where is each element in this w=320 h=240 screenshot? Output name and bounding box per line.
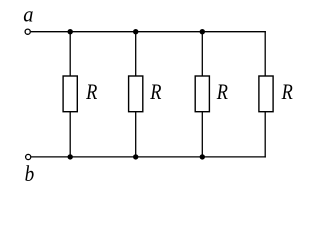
wire: branch 2 top lead <box>135 32 137 77</box>
junction dot: branch 1 bottom <box>68 154 73 159</box>
junction dot: branch 3 bottom <box>200 154 205 159</box>
resistor R (branch 1) <box>63 76 77 112</box>
resistor R (branch 4) <box>259 76 273 112</box>
junction dot: branch 2 bottom <box>133 154 138 159</box>
wire: top horizontal bus from terminal a to right corner <box>31 31 266 33</box>
svg-text:R: R <box>85 79 97 104</box>
junction dot: branch 1 top <box>68 29 73 34</box>
terminal a <box>25 29 30 34</box>
terminal b <box>26 154 31 159</box>
resistor value label R (branch 4) <box>281 79 293 104</box>
junction dot: branch 3 top <box>200 29 205 34</box>
wire: branch 2 bottom lead <box>135 112 137 157</box>
wire: branch 4 bottom lead <box>264 112 266 158</box>
resistor value label R (branch 1) <box>85 79 97 104</box>
wire: branch 1 top lead <box>69 32 71 77</box>
resistor R (branch 2) <box>129 76 143 112</box>
svg-text:R: R <box>216 79 228 104</box>
svg-text:R: R <box>149 79 161 104</box>
wire: bottom horizontal bus from terminal b to right corner <box>31 156 266 158</box>
junction dot: branch 2 top <box>133 29 138 34</box>
wire: branch 3 bottom lead <box>201 112 203 157</box>
svg-text:a: a <box>23 1 33 26</box>
wire: branch 1 bottom lead <box>69 112 71 157</box>
resistor value label R (branch 3) <box>216 79 228 104</box>
resistor R (branch 3) <box>195 76 209 112</box>
node b label <box>25 161 35 186</box>
svg-text:b: b <box>25 161 35 186</box>
resistor value label R (branch 2) <box>149 79 161 104</box>
node a label <box>23 1 33 26</box>
wire: branch 3 top lead <box>201 32 203 77</box>
wire: branch 4 top lead <box>264 31 266 76</box>
svg-text:R: R <box>281 79 293 104</box>
